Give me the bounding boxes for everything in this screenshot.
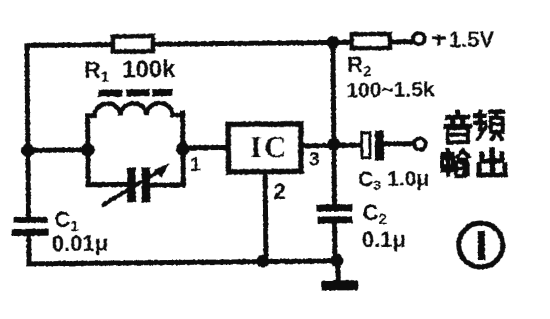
svg-text:0.1μ: 0.1μ xyxy=(362,227,406,252)
svg-text:R1100k: R1100k xyxy=(84,56,176,86)
svg-text:C2: C2 xyxy=(362,200,387,228)
svg-text:3: 3 xyxy=(309,150,320,171)
svg-text:1: 1 xyxy=(190,154,201,176)
svg-text:1.5V: 1.5V xyxy=(449,27,495,52)
svg-text:2: 2 xyxy=(273,179,286,204)
svg-text:0.01μ: 0.01μ xyxy=(52,231,109,257)
svg-text:100~1.5k: 100~1.5k xyxy=(346,78,435,102)
svg-text:R2: R2 xyxy=(347,52,372,80)
svg-text:IC: IC xyxy=(250,129,289,164)
svg-text:C31.0μ: C31.0μ xyxy=(358,168,429,194)
